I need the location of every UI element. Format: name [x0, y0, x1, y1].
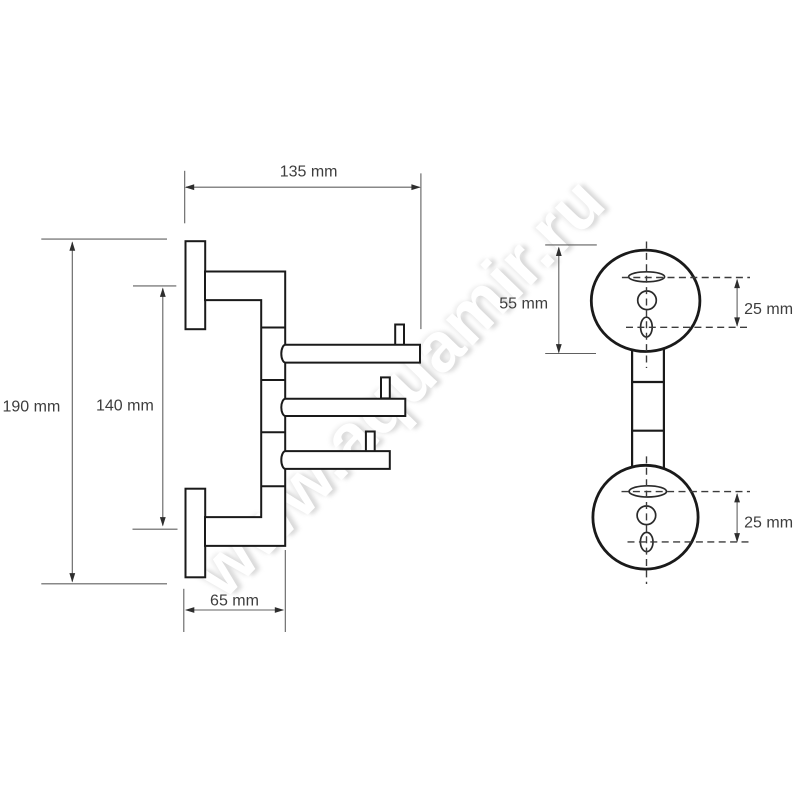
svg-text:25 mm: 25 mm: [744, 301, 793, 318]
post swivel divider 2: [261, 379, 285, 381]
hook arm 1: [281, 345, 420, 363]
dashed reference top circle upper: [622, 277, 750, 279]
svg-text:55 mm: 55 mm: [499, 295, 548, 312]
wall plate top (side view): [186, 241, 206, 329]
bottom rosette screw hole: [637, 506, 656, 525]
dashed reference top circle lower: [626, 326, 750, 328]
top rosette screw hole: [638, 291, 657, 310]
wall plate bottom (side view): [186, 489, 206, 578]
peg on hook arm 2: [381, 377, 390, 398]
140 mm dimension line: [162, 289, 164, 526]
svg-text:190 mm: 190 mm: [3, 399, 61, 416]
svg-text:135 mm: 135 mm: [280, 164, 338, 181]
top rosette keyhole slot: [629, 272, 665, 282]
svg-text:140 mm: 140 mm: [96, 398, 154, 415]
65 mm dimension line: [186, 609, 283, 611]
140 mm reference line top: [133, 285, 176, 287]
dashed reference bottom circle lower: [628, 541, 751, 543]
135 mm extension line right: [420, 173, 422, 329]
135 mm dimension line: [186, 186, 420, 188]
connecting bar: [632, 340, 664, 478]
vertical centerline bottom circle: [646, 456, 648, 584]
190 mm reference line bottom: [41, 583, 167, 585]
bottom rosette keyhole slot: [629, 486, 666, 497]
post swivel divider 3: [261, 431, 285, 433]
65 mm extension line left: [183, 589, 185, 632]
svg-text:65 mm: 65 mm: [210, 592, 259, 609]
190 mm reference line top: [41, 238, 167, 240]
55 mm dimension line: [558, 248, 560, 353]
bar divider 1: [632, 381, 664, 383]
vertical centerline top circle: [646, 242, 648, 369]
bottom mounting rosette circle: [593, 465, 698, 569]
135 mm extension line left: [184, 171, 186, 224]
hook arm 3: [281, 451, 389, 469]
top rosette lower hole: [641, 317, 653, 337]
peg on hook arm 1: [395, 325, 404, 346]
bottom rosette lower hole: [640, 532, 653, 551]
watermark www.aquamir.ru: [175, 161, 624, 612]
bar divider 2: [632, 430, 664, 432]
25 mm bottom dimension line: [736, 494, 738, 541]
25 mm top dimension line: [736, 280, 738, 326]
post swivel divider 1: [261, 327, 285, 329]
65 mm extension line right: [284, 550, 286, 632]
top mounting rosette circle: [591, 250, 700, 351]
hook arm 2: [281, 399, 405, 416]
dashed reference bottom circle upper: [622, 491, 751, 493]
arm + pivot post outline (C shape): [205, 272, 285, 546]
140 mm reference line bottom: [133, 528, 178, 530]
55 mm reference line bottom: [545, 353, 596, 355]
svg-text:25 mm: 25 mm: [744, 515, 793, 532]
55 mm reference line top: [545, 244, 597, 246]
peg on hook arm 3: [366, 432, 375, 453]
190 mm dimension line: [71, 243, 73, 582]
post swivel divider 4: [261, 485, 285, 487]
